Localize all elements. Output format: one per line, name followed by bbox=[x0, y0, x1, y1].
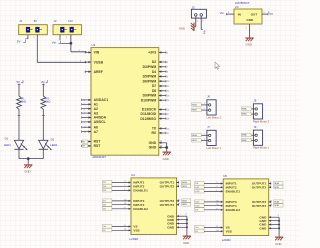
svg-text:M3B: M3B bbox=[182, 204, 187, 206]
svg-text:ENABLE2: ENABLE2 bbox=[226, 208, 241, 212]
svg-text:GND: GND bbox=[259, 226, 267, 230]
svg-text:M3A: M3A bbox=[182, 199, 187, 202]
svg-text:D2: D2 bbox=[51, 137, 55, 141]
svg-text:A2: A2 bbox=[94, 107, 98, 111]
svg-text:1kΩ: 1kΩ bbox=[21, 100, 26, 104]
svg-text:GND: GND bbox=[149, 141, 157, 145]
svg-text:D8: D8 bbox=[152, 89, 156, 93]
svg-text:D3/PWM: D3/PWM bbox=[143, 65, 157, 69]
svg-text:D6/PWM: D6/PWM bbox=[143, 79, 157, 83]
svg-text:L293D: L293D bbox=[130, 237, 140, 241]
svg-text:GND: GND bbox=[246, 18, 254, 22]
svg-text:VSS: VSS bbox=[226, 229, 232, 233]
svg-text:D4: D4 bbox=[152, 70, 156, 74]
svg-text:A4/SDA: A4/SDA bbox=[94, 116, 107, 120]
svg-text:A7: A7 bbox=[94, 130, 98, 134]
svg-text:M4A: M4A bbox=[242, 107, 247, 110]
svg-text:5V: 5V bbox=[17, 40, 21, 44]
svg-text:+3V3: +3V3 bbox=[148, 51, 156, 55]
svg-text:LED2: LED2 bbox=[50, 143, 57, 147]
svg-text:GND: GND bbox=[24, 170, 30, 174]
svg-text:M2A: M2A bbox=[274, 182, 279, 185]
svg-text:M1B: M1B bbox=[192, 140, 197, 142]
svg-text:M4B: M4B bbox=[242, 114, 247, 116]
svg-text:VSS: VSS bbox=[133, 228, 139, 232]
svg-text:Right Motor 2: Right Motor 2 bbox=[253, 119, 270, 123]
svg-text:J2: J2 bbox=[54, 19, 57, 23]
svg-text:D5/PWM: D5/PWM bbox=[143, 75, 157, 79]
svg-text:OUTPUT2: OUTPUT2 bbox=[252, 185, 267, 189]
svg-text:Vin: Vin bbox=[203, 30, 207, 34]
svg-text:Right Motor 1: Right Motor 1 bbox=[253, 146, 270, 150]
svg-text:LED1: LED1 bbox=[4, 143, 11, 147]
svg-text:D9/PWM: D9/PWM bbox=[143, 94, 157, 98]
svg-text:12V: 12V bbox=[68, 19, 73, 23]
svg-text:AREF: AREF bbox=[94, 70, 103, 74]
svg-text:OUTPUT4: OUTPUT4 bbox=[160, 203, 175, 207]
svg-text:M4A: M4A bbox=[274, 200, 279, 203]
svg-text:GND: GND bbox=[163, 157, 169, 161]
svg-text:VIN: VIN bbox=[94, 51, 100, 55]
svg-text:ENABLE1: ENABLE1 bbox=[226, 190, 241, 194]
svg-text:5V: 5V bbox=[16, 80, 20, 84]
svg-text:U3: U3 bbox=[235, 5, 239, 9]
svg-text:D7: D7 bbox=[152, 84, 156, 88]
svg-text:GND: GND bbox=[167, 225, 175, 229]
svg-text:A1: A1 bbox=[94, 103, 98, 107]
svg-text:TX: TX bbox=[152, 127, 157, 131]
svg-text:OUTPUT4: OUTPUT4 bbox=[252, 204, 267, 208]
svg-text:M1A: M1A bbox=[182, 181, 187, 184]
svg-text:OUT: OUT bbox=[251, 12, 258, 16]
svg-text:A6: A6 bbox=[94, 125, 98, 129]
svg-text:J1: J1 bbox=[19, 19, 22, 23]
svg-text:M1A: M1A bbox=[192, 134, 197, 137]
svg-text:M2B: M2B bbox=[274, 187, 279, 189]
svg-text:M4B: M4B bbox=[274, 205, 279, 207]
svg-text:RX: RX bbox=[151, 131, 156, 135]
svg-text:5V: 5V bbox=[269, 12, 273, 16]
svg-text:D2: D2 bbox=[152, 60, 156, 64]
svg-text:GND: GND bbox=[275, 242, 281, 246]
svg-text:M2A: M2A bbox=[192, 103, 197, 106]
svg-text:GND: GND bbox=[183, 241, 189, 245]
svg-text:VUSB: VUSB bbox=[94, 60, 104, 64]
svg-text:D1: D1 bbox=[5, 136, 9, 140]
svg-text:D10/PWM: D10/PWM bbox=[141, 98, 157, 102]
svg-text:U2: U2 bbox=[92, 43, 96, 47]
svg-text:A5/SCL: A5/SCL bbox=[94, 120, 106, 124]
svg-text:M1B: M1B bbox=[182, 186, 187, 188]
svg-text:U5: U5 bbox=[223, 174, 227, 178]
svg-text:Left Motor 1: Left Motor 1 bbox=[207, 146, 222, 150]
svg-text:M2B: M2B bbox=[192, 110, 197, 112]
svg-text:ENABLE1: ENABLE1 bbox=[133, 189, 148, 193]
svg-text:M3B: M3B bbox=[242, 140, 247, 142]
svg-text:A0/DAC1: A0/DAC1 bbox=[94, 98, 109, 102]
svg-text:1kΩ: 1kΩ bbox=[46, 100, 51, 104]
svg-text:U4: U4 bbox=[131, 173, 135, 177]
svg-text:D12/MISO: D12/MISO bbox=[140, 117, 156, 121]
svg-text:Vin: Vin bbox=[52, 40, 57, 44]
svg-text:M3A: M3A bbox=[242, 134, 247, 137]
svg-text:5V: 5V bbox=[34, 19, 37, 23]
svg-text:D11/MOSI: D11/MOSI bbox=[141, 112, 157, 116]
svg-text:RST: RST bbox=[94, 140, 102, 144]
svg-text:ENABLE2: ENABLE2 bbox=[133, 207, 148, 211]
svg-text:OUTPUT2: OUTPUT2 bbox=[160, 184, 175, 188]
svg-text:Left Motor 2: Left Motor 2 bbox=[207, 115, 222, 119]
svg-text:Vin: Vin bbox=[41, 80, 46, 84]
svg-text:RST: RST bbox=[94, 144, 102, 148]
svg-text:GND: GND bbox=[246, 42, 252, 46]
svg-text:GND: GND bbox=[179, 26, 185, 30]
svg-text:ARD00307: ARD00307 bbox=[92, 155, 106, 159]
svg-text:L293D: L293D bbox=[222, 238, 232, 242]
svg-text:Vin: Vin bbox=[220, 11, 224, 15]
svg-text:A3: A3 bbox=[94, 111, 98, 115]
svg-text:D13/SCK: D13/SCK bbox=[142, 108, 157, 112]
svg-text:GND: GND bbox=[149, 146, 157, 150]
